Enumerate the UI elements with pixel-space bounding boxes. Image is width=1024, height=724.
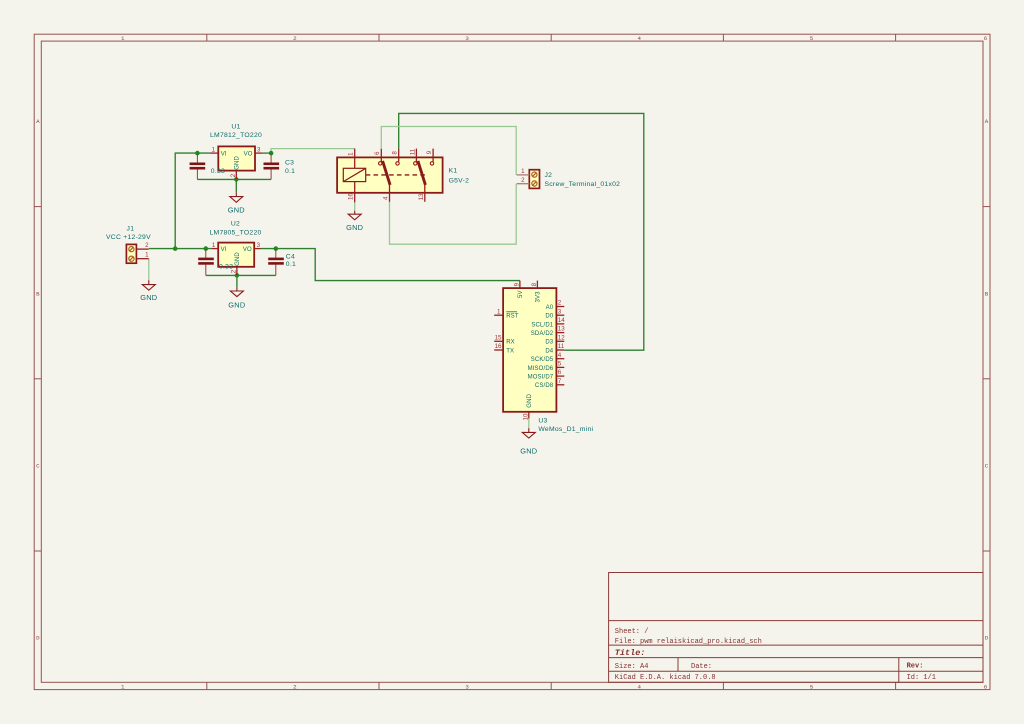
svg-text:D0: D0 — [545, 314, 553, 320]
junction dots — [173, 151, 278, 278]
svg-text:C: C — [985, 463, 989, 470]
svg-text:15: 15 — [495, 334, 502, 341]
svg-text:1: 1 — [497, 308, 501, 315]
svg-text:GND: GND — [520, 447, 537, 456]
svg-text:6: 6 — [984, 35, 988, 42]
svg-text:A: A — [985, 118, 989, 125]
svg-text:1: 1 — [121, 35, 125, 42]
junction at C3/U1.VO — [269, 151, 274, 156]
wire K1 pin8 to U3 D4 — [399, 113, 644, 350]
svg-text:10: 10 — [522, 413, 529, 420]
svg-text:MOSI/D7: MOSI/D7 — [528, 375, 554, 381]
switch 2 contacts — [414, 162, 417, 165]
svg-text:U1: U1 — [231, 123, 240, 130]
wire J2 pin2 to K1 pin4 (dimmed) — [390, 184, 517, 245]
svg-text:4: 4 — [638, 683, 642, 690]
svg-text:2: 2 — [521, 177, 525, 184]
pin 1 — [354, 149, 356, 169]
svg-text:GND: GND — [228, 301, 245, 310]
wire J1 pin1 to gnd (dimmed) — [148, 259, 150, 281]
connector J1 — [106, 226, 151, 264]
title block — [609, 573, 983, 683]
svg-text:LM7805_TO220: LM7805_TO220 — [210, 229, 262, 236]
junction at U2 ground bus — [235, 273, 240, 278]
svg-text:2: 2 — [293, 683, 297, 690]
svg-text:11: 11 — [409, 148, 416, 155]
pin 1 RST — [494, 314, 503, 316]
svg-text:3: 3 — [465, 35, 469, 42]
svg-text:KiCad E.D.A. kicad 7.0.8: KiCad E.D.A. kicad 7.0.8 — [615, 674, 716, 682]
svg-text:MISO/D6: MISO/D6 — [528, 366, 554, 372]
svg-text:A: A — [36, 118, 40, 125]
module U3 WeMos D1 mini — [494, 281, 593, 434]
svg-text:3V3: 3V3 — [536, 291, 542, 303]
svg-text:B: B — [36, 290, 40, 297]
svg-text:8: 8 — [531, 282, 538, 286]
svg-text:SCK/D5: SCK/D5 — [531, 357, 554, 363]
wire to U1.VI — [175, 152, 210, 154]
svg-text:VO: VO — [244, 152, 253, 158]
junction at C2/U2.VI — [204, 246, 209, 251]
svg-text:Date:: Date: — [691, 663, 712, 671]
svg-text:VI: VI — [221, 247, 227, 253]
svg-text:0.1: 0.1 — [286, 261, 296, 268]
svg-text:D4: D4 — [545, 348, 553, 354]
svg-text:GND: GND — [228, 205, 245, 214]
pin 8 (3V3) — [536, 281, 538, 289]
wire K1 pin16 to gnd (dimmed) — [354, 202, 356, 210]
svg-text:2: 2 — [230, 173, 237, 177]
svg-text:Sheet: /: Sheet: / — [615, 628, 649, 636]
svg-text:C4: C4 — [286, 254, 295, 261]
svg-text:2: 2 — [558, 300, 562, 307]
wire U3 pin10 to gnd (dimmed) — [528, 418, 530, 428]
svg-text:VCC +12-29V: VCC +12-29V — [106, 234, 151, 241]
pin 16 TX — [494, 349, 503, 351]
junction at input branch — [173, 246, 178, 251]
wire U1.VO to C3 — [262, 152, 271, 154]
svg-text:GND: GND — [235, 252, 241, 266]
svg-text:Id: 1/1: Id: 1/1 — [907, 674, 936, 682]
svg-text:WeMos_D1_mini: WeMos_D1_mini — [538, 426, 593, 433]
ground symbol U1 — [230, 192, 243, 202]
svg-text:B: B — [985, 290, 989, 297]
ground symbol U3 — [522, 428, 535, 438]
svg-text:G5V-2: G5V-2 — [449, 177, 470, 184]
junction at C1/U1.VI — [195, 151, 200, 156]
ground symbol K1 — [348, 211, 361, 220]
capacitor C3 — [264, 153, 280, 179]
svg-text:LM7812_TO220: LM7812_TO220 — [210, 132, 262, 139]
svg-text:SDA/D2: SDA/D2 — [531, 331, 554, 337]
svg-text:TX: TX — [506, 348, 514, 354]
svg-text:3: 3 — [257, 147, 261, 154]
wire U2 pin2 to gnd — [236, 275, 238, 287]
wire U1 output to K1 pin1 (dimmed) — [271, 149, 355, 154]
svg-text:12: 12 — [558, 334, 565, 341]
wire J1.2 to U2.VI — [149, 248, 212, 250]
svg-text:U2: U2 — [231, 221, 240, 228]
ground symbol J1 — [142, 280, 155, 290]
svg-text:A0: A0 — [546, 305, 554, 311]
svg-text:0.1: 0.1 — [285, 168, 295, 175]
svg-text:9: 9 — [426, 150, 433, 154]
svg-text:13: 13 — [558, 326, 565, 333]
svg-text:6: 6 — [558, 369, 562, 376]
svg-text:RST: RST — [506, 314, 519, 320]
capacitor C2 (0.33) — [198, 249, 214, 276]
svg-text:J1: J1 — [127, 226, 135, 233]
svg-text:Rev:: Rev: — [907, 663, 924, 671]
svg-text:File: pwm relaiskicad_pro.kica: File: pwm relaiskicad_pro.kicad_sch — [615, 638, 762, 646]
wire vertical branch to U1 — [174, 153, 176, 249]
svg-text:5: 5 — [558, 361, 562, 368]
svg-text:C3: C3 — [285, 160, 294, 167]
mechanical dashed link — [366, 174, 427, 176]
switch 1 contacts — [379, 162, 382, 165]
svg-text:1: 1 — [212, 147, 216, 154]
coil — [343, 168, 365, 181]
svg-text:Screw_Terminal_01x02: Screw_Terminal_01x02 — [545, 181, 621, 188]
svg-text:K1: K1 — [449, 167, 458, 174]
wire U2.VO to C4 to corner — [261, 249, 520, 281]
svg-text:3: 3 — [558, 308, 562, 315]
voltage regulator U1 — [210, 123, 263, 179]
svg-text:4: 4 — [638, 35, 642, 42]
svg-text:16: 16 — [495, 343, 502, 350]
svg-text:5: 5 — [810, 683, 814, 690]
svg-text:1: 1 — [521, 168, 525, 175]
svg-text:J2: J2 — [545, 172, 553, 179]
svg-text:GND: GND — [235, 156, 241, 170]
svg-text:1: 1 — [348, 152, 355, 156]
svg-text:11: 11 — [558, 343, 565, 350]
svg-text:16: 16 — [348, 193, 355, 200]
svg-text:0.33: 0.33 — [211, 168, 225, 175]
svg-text:VO: VO — [243, 247, 252, 253]
svg-text:D: D — [36, 635, 40, 642]
right pins — [556, 306, 564, 308]
svg-text:5: 5 — [810, 35, 814, 42]
svg-text:3: 3 — [257, 242, 261, 249]
svg-text:0.33: 0.33 — [219, 264, 233, 271]
svg-text:Size: A4: Size: A4 — [615, 663, 649, 671]
svg-text:4: 4 — [382, 196, 389, 200]
svg-text:2: 2 — [145, 242, 149, 249]
svg-text:VI: VI — [221, 152, 227, 158]
svg-text:8: 8 — [392, 151, 399, 155]
svg-text:5V: 5V — [518, 290, 524, 298]
svg-text:GND: GND — [346, 223, 363, 232]
svg-text:1: 1 — [212, 242, 216, 249]
svg-text:U3: U3 — [538, 418, 547, 425]
svg-text:6: 6 — [984, 683, 988, 690]
voltage regulator U2 — [210, 221, 262, 276]
svg-text:GND: GND — [140, 293, 157, 302]
svg-text:13: 13 — [418, 193, 425, 200]
svg-text:D: D — [985, 635, 989, 642]
capacitor C1 (0.33) — [190, 153, 206, 179]
pin 9 (5V) — [519, 281, 521, 289]
pin 10 GND bottom — [528, 412, 530, 419]
svg-text:4: 4 — [558, 352, 562, 359]
svg-text:1: 1 — [121, 683, 125, 690]
svg-text:1: 1 — [145, 252, 149, 259]
svg-text:Title:: Title: — [615, 648, 646, 658]
svg-text:SCL/D1: SCL/D1 — [531, 322, 553, 328]
junction at U1 ground bus — [234, 177, 239, 182]
ground symbol U2 — [230, 287, 243, 296]
svg-text:RX: RX — [506, 340, 515, 346]
svg-text:6: 6 — [374, 151, 381, 155]
svg-text:14: 14 — [558, 317, 565, 324]
svg-text:CS/D8: CS/D8 — [535, 383, 554, 389]
svg-text:2: 2 — [293, 35, 297, 42]
svg-text:C: C — [36, 463, 40, 470]
junction at C4/U2.VO — [274, 246, 279, 251]
wire U1 pin2 to gnd — [235, 179, 237, 192]
svg-text:3: 3 — [465, 683, 469, 690]
wire U1 ground bus — [197, 178, 271, 180]
connector J2 — [517, 168, 621, 188]
relay K1 — [337, 148, 469, 202]
wire U2 ground bus — [206, 274, 276, 276]
svg-text:D3: D3 — [545, 340, 553, 346]
capacitor C4 — [268, 249, 284, 276]
svg-text:7: 7 — [558, 378, 562, 385]
svg-text:GND: GND — [527, 393, 533, 407]
wire K1 pin6 to J2 pin1 (dimmed) — [381, 127, 516, 175]
svg-text:9: 9 — [513, 282, 520, 286]
pin 15 RX — [494, 340, 503, 342]
pin 16 — [354, 182, 356, 203]
